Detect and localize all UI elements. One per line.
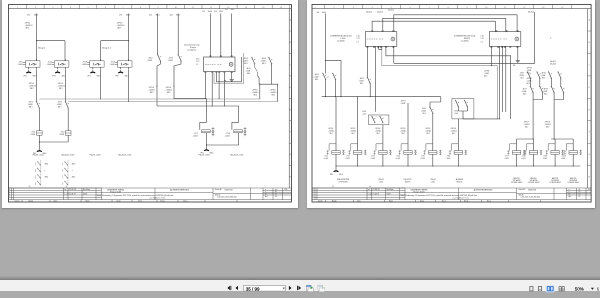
svg-text:21.08.19: 21.08.19 xyxy=(69,194,76,196)
svg-text:Bearb.: Bearb. xyxy=(332,201,337,203)
svg-text:AB5/709: AB5/709 xyxy=(514,177,520,180)
svg-text:86.7: 86.7 xyxy=(377,133,380,135)
bus wire L3 xyxy=(157,105,239,107)
svg-text:A6=2003 +1003: A6=2003 +1003 xyxy=(119,153,132,156)
svg-text:H: H xyxy=(589,177,591,179)
svg-text:PE1: PE1 xyxy=(116,75,119,77)
svg-text:PE: PE xyxy=(513,65,516,67)
zoom dropdown caret xyxy=(591,288,594,290)
wire to valve V4 xyxy=(407,103,409,144)
svg-text:AB5/709: AB5/709 xyxy=(530,177,536,180)
svg-text:-Y%1: -Y%1 xyxy=(324,156,328,158)
svg-text:Gepr.: Gepr. xyxy=(54,201,58,203)
svg-text:1: 1 xyxy=(35,163,36,165)
svg-text:40: 40 xyxy=(275,191,277,193)
right switch stack S6 xyxy=(268,57,272,64)
svg-text:7: 7 xyxy=(123,7,124,9)
previous view button xyxy=(306,285,313,291)
svg-text:86.7: 86.7 xyxy=(330,133,333,135)
next view button (disabled) xyxy=(318,285,325,291)
svg-text:/88.4: /88.4 xyxy=(125,75,129,77)
two page scrolling icon xyxy=(559,287,561,291)
svg-text:10: 10 xyxy=(175,7,177,9)
wire: feeder -F2 from top xyxy=(101,14,129,61)
svg-text:35: 35 xyxy=(29,186,31,188)
wires: connector feeders from top xyxy=(211,14,232,58)
svg-text:88.7: 88.7 xyxy=(118,28,122,30)
svg-text:+1003: +1003 xyxy=(324,158,329,160)
svg-text:Ers.f.: Ers.f. xyxy=(139,201,143,203)
svg-text:F: F xyxy=(589,132,591,134)
svg-text:/88.4: /88.4 xyxy=(97,75,101,77)
svg-text:1: 1 xyxy=(315,7,316,9)
next page button xyxy=(289,286,292,290)
wire K2 to switch S2 xyxy=(64,69,66,102)
svg-text:2: 2 xyxy=(35,7,36,9)
contact cross-ref table K1 xyxy=(40,160,42,185)
svg-text:8: 8 xyxy=(140,7,141,9)
switch cluster CL2 xyxy=(452,99,474,119)
svg-text:1.10: 1.10 xyxy=(481,36,484,38)
X22 bottom pin wires xyxy=(367,46,381,112)
chassis ground under K1 xyxy=(26,70,31,73)
svg-text:/84.6: /84.6 xyxy=(231,9,235,11)
svg-text:G: G xyxy=(589,154,591,156)
svg-text:900/TS: 900/TS xyxy=(405,181,411,183)
svg-text:2: 2 xyxy=(62,171,63,173)
svg-text:152: 152 xyxy=(170,14,173,16)
svg-text:1.12: 1.12 xyxy=(357,38,360,40)
svg-text:86.5: 86.5 xyxy=(544,94,547,96)
svg-text:Bl.: Bl. xyxy=(265,194,267,196)
earth ground under X21 xyxy=(231,73,233,78)
svg-text:173: 173 xyxy=(119,14,122,16)
svg-text:1.12: 1.12 xyxy=(481,38,484,40)
svg-text:88.2: 88.2 xyxy=(59,88,63,90)
svg-text:v.: v. xyxy=(265,191,267,193)
wires B1/B2 to bus xyxy=(326,80,336,97)
svg-text:16: 16 xyxy=(280,7,282,9)
svg-text:P50: P50 xyxy=(285,189,288,191)
svg-text:2: 2 xyxy=(35,171,36,173)
svg-text:3L1: 3L1 xyxy=(225,9,228,11)
chassis ground under K4 xyxy=(118,70,123,73)
svg-text:1: 1 xyxy=(35,176,36,178)
svg-text:+1008: +1008 xyxy=(30,134,35,136)
wire K1 to switch S1 xyxy=(36,69,38,102)
wire S4 down to bus xyxy=(174,61,181,99)
relay K3 xyxy=(87,59,104,69)
svg-text:-Y%10: -Y%10 xyxy=(561,156,566,158)
last page button xyxy=(296,286,299,290)
switch B3 xyxy=(367,77,371,84)
svg-text:/84.6: /84.6 xyxy=(208,11,212,13)
svg-text:/86.2: /86.2 xyxy=(156,14,160,16)
chassis ground bottom xyxy=(335,166,337,169)
svg-text:88.1: 88.1 xyxy=(58,107,62,109)
solenoid valve V10 xyxy=(564,144,582,155)
chassis ground node xyxy=(37,148,42,151)
svg-text:11: 11 xyxy=(192,7,194,9)
svg-text:+1008: +1008 xyxy=(82,64,87,66)
svg-text:88.2: 88.2 xyxy=(167,92,171,94)
svg-text:2: 2 xyxy=(35,178,36,180)
svg-text:v.: v. xyxy=(569,191,571,193)
svg-text:2L1: 2L1 xyxy=(214,11,217,13)
svg-text:9: 9 xyxy=(158,7,159,9)
svg-text:1.1: 1.1 xyxy=(357,42,359,44)
wire: left feeder from top xyxy=(325,14,341,97)
svg-text:4: 4 xyxy=(313,189,314,191)
svg-text:D: D xyxy=(589,87,591,89)
svg-text:7: 7 xyxy=(429,7,430,9)
switch S4 xyxy=(178,54,182,61)
earth ground under X23 xyxy=(517,46,519,59)
svg-text:1: 1 xyxy=(313,196,314,198)
connector X22 top feeders xyxy=(372,15,517,32)
svg-text:2: 2 xyxy=(62,165,63,167)
svg-text:86.7: 86.7 xyxy=(546,127,549,129)
svg-text:Urspr.: Urspr. xyxy=(420,201,425,203)
svg-text:2: 2 xyxy=(35,165,36,167)
svg-text:86.7: 86.7 xyxy=(352,133,355,135)
svg-text:2: 2 xyxy=(35,184,36,186)
svg-text:2: 2 xyxy=(62,184,63,186)
svg-text:1: 1 xyxy=(35,182,36,184)
svg-text:Datum-Nr.: Datum-Nr. xyxy=(519,188,526,191)
svg-text:PE1: PE1 xyxy=(24,75,27,77)
svg-text:2: 2 xyxy=(9,194,10,196)
svg-text:12: 12 xyxy=(210,7,212,9)
svg-text:35: 35 xyxy=(275,194,277,196)
svg-text:40: 40 xyxy=(579,191,581,193)
svg-text:+1003: +1003 xyxy=(561,158,566,160)
svg-text:/88.4: /88.4 xyxy=(210,153,214,155)
svg-text:SenDigit: SenDigit xyxy=(83,188,90,191)
svg-text:36: 36 xyxy=(369,186,371,188)
svg-text:46=16.2: 46=16.2 xyxy=(388,10,394,12)
svg-text:AB5/709: AB5/709 xyxy=(570,177,576,180)
wire: feeder -F1 from top xyxy=(37,14,66,61)
svg-text:86.1: 86.1 xyxy=(360,83,363,85)
svg-text:1.10: 1.10 xyxy=(357,36,360,38)
svg-text:L005: L005 xyxy=(379,181,383,183)
svg-text:Bearb.: Bearb. xyxy=(29,201,34,203)
svg-text:5: 5 xyxy=(391,7,392,9)
solenoid valve V4 xyxy=(399,144,417,155)
relay K4 xyxy=(115,59,132,69)
svg-text:-Y%5: -Y%5 xyxy=(421,156,425,158)
split wires to valves 7-10 xyxy=(517,139,534,144)
solenoid valve V6 xyxy=(449,144,467,155)
switch B1 xyxy=(322,73,326,80)
wire from top right xyxy=(394,12,535,63)
svg-text:NeNT: NeNT xyxy=(387,194,391,196)
svg-text:60: 60 xyxy=(275,196,277,198)
svg-text:-Y%2: -Y%2 xyxy=(346,156,350,158)
input dropdown caret xyxy=(283,288,285,290)
top column-number strip xyxy=(312,8,591,10)
title block table xyxy=(312,188,591,202)
chassis ground under K3 xyxy=(90,70,95,73)
svg-text:-Y%6: -Y%6 xyxy=(446,156,450,158)
svg-text:Ehingen GmbH: Ehingen GmbH xyxy=(414,191,426,193)
svg-text:8: 8 xyxy=(448,7,449,9)
svg-text:+1008: +1008 xyxy=(59,134,64,136)
svg-text:PE1: PE1 xyxy=(88,75,91,77)
svg-text:m.: m. xyxy=(65,189,67,191)
relay K1 xyxy=(23,59,40,69)
svg-text:Gepr.: Gepr. xyxy=(357,201,361,203)
svg-text:+ av / Na/Ma 9.1 / 9.0.1: + av / Na/Ma 9.1 / 9.0.1 xyxy=(452,198,469,200)
svg-text:+ av / Na/Ma 9.1 / 9.0.1: + av / Na/Ma 9.1 / 9.0.1 xyxy=(149,198,166,200)
svg-text:5: 5 xyxy=(87,7,88,9)
svg-text:21.08.19: 21.08.19 xyxy=(373,194,380,196)
right switch pair group 2 row 2 xyxy=(551,86,555,93)
svg-text:60: 60 xyxy=(579,196,581,198)
svg-text:A: A xyxy=(589,19,591,22)
svg-text:Ehingen GmbH: Ehingen GmbH xyxy=(110,191,122,193)
svg-text:Anl.: Anl. xyxy=(265,195,268,198)
solenoid valve V3 xyxy=(373,144,391,155)
svg-text:/88.4: /88.4 xyxy=(45,177,49,179)
svg-text:2: 2 xyxy=(62,178,63,180)
svg-text:1: 1 xyxy=(35,169,36,171)
svg-text:1.1: 1.1 xyxy=(481,42,483,44)
svg-text:151: 151 xyxy=(149,14,152,16)
svg-text:3: 3 xyxy=(52,7,53,9)
svg-text:x: x xyxy=(45,170,46,172)
svg-text:88.7: 88.7 xyxy=(26,28,30,30)
wire: feeder from top to switch S4 xyxy=(177,14,179,55)
svg-text:+1008: +1008 xyxy=(47,64,52,66)
solenoid valve V1 xyxy=(327,144,345,155)
svg-text:+1003: +1003 xyxy=(225,135,230,137)
connector X21 xyxy=(204,56,236,73)
solenoid valve YV2 xyxy=(232,106,239,130)
svg-text:B00/TS: B00/TS xyxy=(457,181,464,183)
right schematic page xyxy=(307,0,595,208)
svg-text:46=16.4: 46=16.4 xyxy=(377,12,383,14)
svg-text:35: 35 xyxy=(579,194,581,196)
svg-text:Ers.f.: Ers.f. xyxy=(442,201,446,203)
svg-text:+1003: +1003 xyxy=(521,158,526,160)
svg-text:Group 1.1: Group 1.1 xyxy=(102,47,112,49)
bottom bus wire xyxy=(336,165,580,167)
svg-text:9.4 B098 +B005: 9.4 B098 +B005 xyxy=(511,182,523,184)
svg-text:NeNT Wednesday, 14 September 2: NeNT Wednesday, 14 September 2022 11:06,… xyxy=(97,194,174,197)
svg-text:PB=26 +1003: PB=26 +1003 xyxy=(199,154,210,156)
svg-text:15: 15 xyxy=(262,7,264,9)
svg-text:SenDigit: SenDigit xyxy=(387,188,394,191)
wire S3 down to bus xyxy=(157,61,160,106)
stack bus junction xyxy=(257,64,277,102)
svg-text:+1003: +1003 xyxy=(147,60,152,62)
svg-text:172: 172 xyxy=(27,14,30,16)
page border frame xyxy=(312,5,591,203)
svg-text:+1008: +1008 xyxy=(401,103,406,105)
svg-text:Datum: Datum xyxy=(318,200,323,203)
svg-text:Ers.d.: Ers.d. xyxy=(161,201,166,203)
svg-text:PB=26 +1003: PB=26 +1003 xyxy=(33,154,44,156)
svg-text:12: 12 xyxy=(523,7,525,9)
connector X22 xyxy=(365,30,397,47)
svg-text:88.2: 88.2 xyxy=(150,92,154,94)
svg-text:/86.4: /86.4 xyxy=(34,14,38,16)
switch B5 xyxy=(430,107,434,114)
svg-text:14: 14 xyxy=(245,7,247,9)
connector X23 xyxy=(489,30,521,47)
svg-text:6: 6 xyxy=(410,7,411,9)
switch S2 xyxy=(65,101,69,108)
svg-text:NeNT: NeNT xyxy=(83,194,87,196)
solenoid valve V8 xyxy=(524,144,542,155)
solenoid valve V7 xyxy=(507,144,525,155)
svg-text:88.3: 88.3 xyxy=(262,63,266,65)
svg-text:+4: +4 xyxy=(327,77,329,79)
svg-text:4: 4 xyxy=(9,189,10,191)
svg-text:86.7: 86.7 xyxy=(402,133,405,135)
svg-text:+1003: +1003 xyxy=(420,158,425,160)
svg-text:9.4 B098 +B005: 9.4 B098 +B005 xyxy=(528,182,540,184)
solenoid valve YV1 xyxy=(200,99,207,130)
wire K3 down xyxy=(100,69,102,99)
svg-text:m.: m. xyxy=(368,189,370,191)
svg-text:LIEBHERR WERK: LIEBHERR WERK xyxy=(410,189,428,191)
svg-text:46: 46 xyxy=(317,12,319,14)
svg-text:1: 1 xyxy=(62,176,63,178)
svg-text:46=16.4: 46=16.4 xyxy=(366,12,372,14)
svg-text:86.2: 86.2 xyxy=(484,76,487,78)
svg-text:+1003: +1003 xyxy=(370,158,375,160)
solenoid valve V2 xyxy=(348,144,366,155)
svg-text:/86.2: /86.2 xyxy=(176,14,180,16)
svg-text:ACHSSTEUERUNG: ACHSSTEUERUNG xyxy=(474,189,493,192)
svg-text:35: 35 xyxy=(332,186,334,188)
svg-text:2: 2 xyxy=(334,7,335,9)
svg-text:/84.6: /84.6 xyxy=(219,11,223,13)
svg-text:+100: +100 xyxy=(454,113,458,115)
svg-text:/88.4: /88.4 xyxy=(62,75,66,77)
svg-text:Ers.e.: Ers.e. xyxy=(487,201,492,203)
svg-text:PE1: PE1 xyxy=(53,75,56,77)
svg-text:-Y%4: -Y%4 xyxy=(396,156,400,158)
svg-text:+1003: +1003 xyxy=(193,135,198,137)
svg-text:Anl.: Anl. xyxy=(569,195,572,198)
svg-text:88.2: 88.2 xyxy=(254,95,258,97)
left schematic page xyxy=(2,0,298,208)
scrolling page view icon xyxy=(538,287,541,291)
long return wires under connectors xyxy=(386,46,511,119)
switch S1 xyxy=(36,101,40,108)
svg-text:+1003: +1003 xyxy=(543,158,548,160)
switch cluster CL1 xyxy=(369,115,389,125)
svg-text:+1003: +1003 xyxy=(504,158,509,160)
title block table xyxy=(9,188,292,202)
svg-text:A6=2003 +1003: A6=2003 +1003 xyxy=(231,153,244,156)
svg-text:-Y%9: -Y%9 xyxy=(543,156,547,158)
contact cross-ref table K2 xyxy=(67,160,69,185)
svg-text:36: 36 xyxy=(66,186,68,188)
wire to valve V1 xyxy=(335,97,337,144)
ground return wire xyxy=(39,135,68,148)
wire to valve V2 xyxy=(357,97,359,144)
X23 bottom pin wires xyxy=(491,46,505,119)
svg-text:1.12: 1.12 xyxy=(196,61,199,63)
svg-text:Datum: Datum xyxy=(15,200,20,203)
wire loop right of X21 xyxy=(216,57,241,82)
top column-number strip xyxy=(9,8,292,10)
svg-text:f.u.40000: f.u.40000 xyxy=(337,40,345,42)
svg-text:AB5/709: AB5/709 xyxy=(552,177,558,180)
contact S5b xyxy=(255,64,258,75)
svg-text:B: B xyxy=(589,42,591,44)
svg-text:A6=2003 +1003: A6=2003 +1003 xyxy=(62,153,75,156)
svg-text:14: 14 xyxy=(561,7,563,9)
svg-text:86.7: 86.7 xyxy=(427,133,430,135)
svg-text:/84.4: /84.4 xyxy=(322,12,326,14)
chassis ground under K2 xyxy=(55,70,60,73)
svg-text:+1003: +1003 xyxy=(345,158,350,160)
valve symbol YV1 xyxy=(212,127,215,136)
svg-text:2.: 2. xyxy=(550,38,552,40)
solenoid valve V9 xyxy=(546,144,564,155)
svg-text:/88.4: /88.4 xyxy=(72,164,76,166)
valve symbol YV2 xyxy=(244,127,247,136)
svg-text:1.06+500.15.60.280.404: 1.06+500.15.60.280.404 xyxy=(217,197,237,199)
svg-text:/88.4: /88.4 xyxy=(45,164,49,166)
bus wire lower-left xyxy=(322,96,441,98)
switch S3 xyxy=(157,54,161,61)
svg-text:9008/7/08: 9008/7/08 xyxy=(528,189,536,191)
svg-text:86.1: 86.1 xyxy=(315,79,318,81)
svg-text:Group 1: Group 1 xyxy=(38,47,46,49)
right switch stack S5 xyxy=(251,57,255,64)
svg-text:3: 3 xyxy=(313,191,314,193)
svg-text:10: 10 xyxy=(485,7,487,9)
switch B2 xyxy=(332,73,336,80)
svg-text:+1008: +1008 xyxy=(110,64,115,66)
svg-text:88.3: 88.3 xyxy=(244,63,248,65)
previous page button xyxy=(236,286,239,290)
svg-text:x: x xyxy=(72,170,73,172)
svg-text:46=16.3: 46=16.3 xyxy=(550,64,556,66)
svg-text:9008/7/08: 9008/7/08 xyxy=(225,189,233,191)
svg-text:86.7: 86.7 xyxy=(452,133,455,135)
svg-text:88.1: 88.1 xyxy=(29,107,33,109)
svg-text:Ers.d.: Ers.d. xyxy=(464,201,469,203)
svg-text:6: 6 xyxy=(105,7,106,9)
wire: feeder from top to switch S3 xyxy=(157,14,159,55)
svg-text:9.4 B098 +B005: 9.4 B098 +B005 xyxy=(549,182,561,184)
right switch pair group 1 row 1 xyxy=(527,72,531,79)
svg-text:86.7: 86.7 xyxy=(525,127,528,129)
coil Y1 xyxy=(37,131,43,135)
single page view icon xyxy=(530,287,533,291)
svg-text:STYPOLER: STYPOLER xyxy=(338,181,348,183)
svg-text:/88.4: /88.4 xyxy=(72,177,76,179)
svg-text:88.2: 88.2 xyxy=(272,95,276,97)
svg-text:1: 1 xyxy=(62,169,63,171)
svg-text:NeNT Wednesday, 14 September 2: NeNT Wednesday, 14 September 2022 11:06,… xyxy=(401,194,478,197)
svg-text:9.4 B098 +B005: 9.4 B098 +B005 xyxy=(567,182,579,184)
svg-text:3: 3 xyxy=(9,191,10,193)
svg-text:21.06.19: 21.06.19 xyxy=(69,189,76,191)
connector bottom pin wires xyxy=(205,73,224,106)
page number input box xyxy=(243,285,285,291)
svg-text:1: 1 xyxy=(17,7,18,9)
svg-text:1: 1 xyxy=(62,182,63,184)
